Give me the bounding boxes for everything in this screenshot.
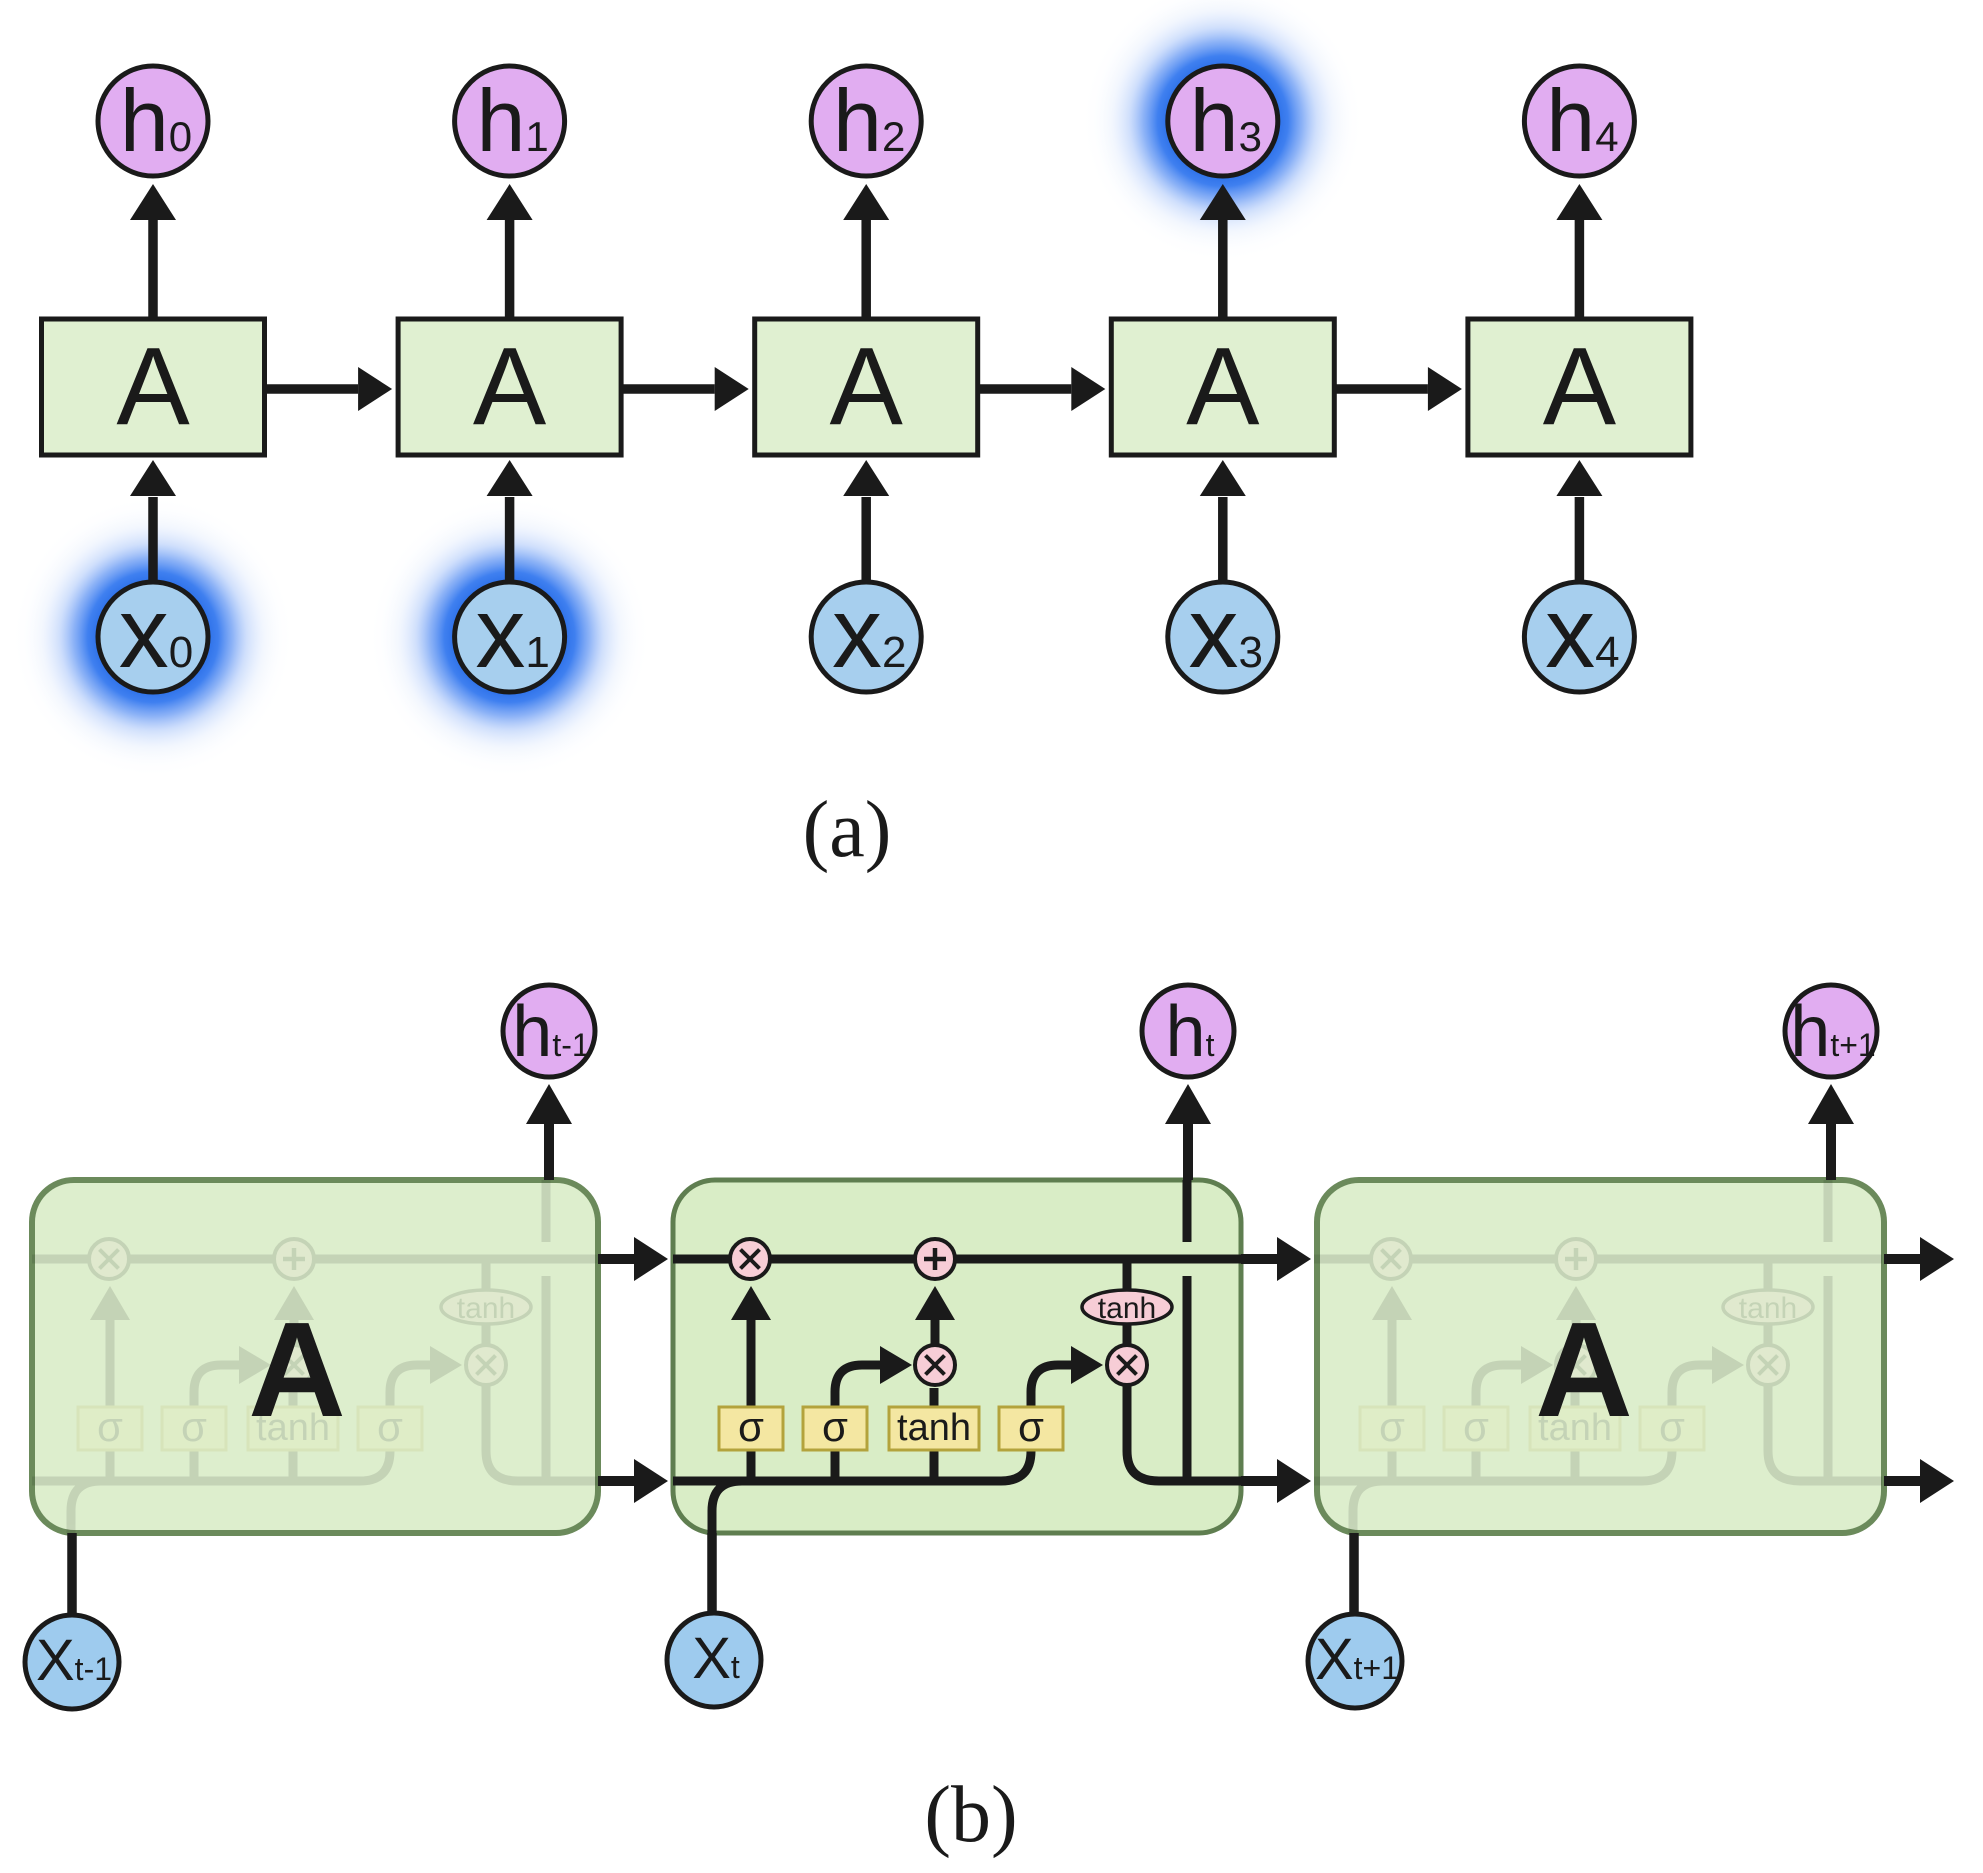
wire A2 to h2 <box>861 220 871 319</box>
op: plus <box>915 1239 955 1279</box>
svg-text:tanh: tanh <box>1098 1292 1156 1325</box>
node h0 : purple circle <box>98 66 208 176</box>
RNN cell A0 : green box <box>42 319 265 455</box>
wire hidden-state arrow t-1 to t <box>598 1476 634 1486</box>
svg-text:σ: σ <box>377 1403 403 1450</box>
wire: output to right edge <box>1768 1385 1882 1481</box>
wire: x input curve <box>1353 1481 1383 1533</box>
node h2 : purple circle <box>811 66 921 176</box>
op: mult-f <box>730 1239 770 1279</box>
node xt+1 : blue circle <box>1308 1614 1402 1708</box>
node x4 : blue circle <box>1524 582 1634 692</box>
wire: input gate riser <box>831 1450 840 1481</box>
glow behind x0 <box>11 495 295 779</box>
gate sigma1 <box>78 1407 142 1450</box>
gate sigma4 <box>1640 1407 1704 1450</box>
wire: mult-i to plus <box>290 1295 299 1346</box>
op: tanh ellipse <box>1082 1290 1172 1324</box>
faint internals cell t-1 <box>32 1180 600 1533</box>
svg-text:σ: σ <box>97 1403 123 1450</box>
wire x4 to A4 <box>1575 497 1585 584</box>
wire: hidden state line <box>1314 1450 1672 1481</box>
wire: hidden state line <box>32 1450 390 1481</box>
wire A3 to A4 <box>1334 384 1428 394</box>
glow behind h3 <box>1081 0 1365 263</box>
svg-text:tanh: tanh <box>457 1292 515 1325</box>
node x1 : blue circle <box>455 582 565 692</box>
wire cell-state arrow t+1 out <box>1884 1254 1920 1264</box>
RNN cell A4 : green box <box>1468 319 1691 455</box>
wire: hidden state line <box>673 1450 1031 1481</box>
op: mult-o <box>1107 1345 1147 1385</box>
wire: cell state line <box>1314 1255 1882 1264</box>
op: mult-i <box>274 1345 314 1385</box>
svg-text:σ: σ <box>181 1403 207 1450</box>
wire: output gate to mult-o <box>1672 1365 1713 1407</box>
wire x0 to A0 <box>148 497 158 584</box>
wire: input gate riser <box>190 1450 199 1481</box>
wire: cell to tanh ellipse <box>1123 1259 1132 1292</box>
wire A3 to h3 <box>1218 220 1228 319</box>
svg-text:σ: σ <box>738 1403 764 1450</box>
wire: tanh ellipse to mult-o <box>1764 1323 1773 1347</box>
node ht+1 : purple circle <box>1785 985 1877 1077</box>
node h1 : purple circle <box>455 66 565 176</box>
wire: mult-i to plus <box>931 1295 940 1346</box>
gate sigma4 <box>358 1407 422 1450</box>
wire: h output vertical <box>1824 1276 1833 1481</box>
svg-text:A: A <box>1543 325 1617 448</box>
wire: x input curve <box>71 1481 101 1533</box>
op: mult-f <box>1371 1239 1411 1279</box>
wire: output gate to mult-o <box>1031 1365 1072 1407</box>
node x3 : blue circle <box>1168 582 1278 692</box>
wire x1 to A1 <box>505 497 515 584</box>
LSTM cell box t <box>673 1180 1241 1533</box>
node x2 : blue circle <box>811 582 921 692</box>
wire: candidate tanh riser <box>1571 1450 1580 1481</box>
op: mult-i <box>1556 1345 1596 1385</box>
wire x3 to A3 <box>1218 497 1228 584</box>
gate sigma2 <box>803 1407 867 1450</box>
wire: candidate tanh riser <box>289 1450 298 1481</box>
gate sigma4 <box>999 1407 1063 1450</box>
wire: tanh ellipse to mult-o <box>482 1323 491 1347</box>
gate tanh <box>1530 1407 1620 1450</box>
svg-text:σ: σ <box>1018 1403 1044 1450</box>
wire: forget gate riser <box>747 1450 756 1481</box>
gate tanh <box>889 1407 979 1450</box>
wire from xt-1 <box>67 1533 77 1617</box>
wire: tanh ellipse to mult-o <box>1123 1323 1132 1347</box>
wire: cell state line <box>32 1255 600 1264</box>
wire cell-state arrow t-1 to t <box>598 1254 634 1264</box>
svg-text:A: A <box>248 1294 346 1445</box>
internals cell t <box>673 1180 1241 1533</box>
wire: input gate riser <box>1472 1450 1481 1481</box>
wire: x input curve <box>712 1481 742 1533</box>
wire hidden-state arrow t+1 out <box>1884 1476 1920 1486</box>
RNN cell A1 : green box <box>398 319 621 455</box>
gate sigma1 <box>1360 1407 1424 1450</box>
op: mult-f <box>89 1239 129 1279</box>
wire x2 to A2 <box>861 497 871 584</box>
svg-text:A: A <box>473 325 547 448</box>
svg-text:tanh: tanh <box>1739 1292 1797 1325</box>
wire: forget gate riser <box>1388 1450 1397 1481</box>
wire A1 to h1 <box>505 220 515 319</box>
faint internals cell t+1 <box>1314 1180 1882 1533</box>
op: mult-o <box>466 1345 506 1385</box>
RNN cell A2 : green box <box>755 319 978 455</box>
wire: candidate tanh riser <box>930 1450 939 1481</box>
op: plus <box>1556 1239 1596 1279</box>
wire to ht-1 <box>544 1124 554 1180</box>
wire: cell state line <box>673 1255 1241 1264</box>
op: mult-i <box>915 1345 955 1385</box>
RNN cell A3 : green box <box>1111 319 1334 455</box>
wire A0 to h0 <box>148 220 158 319</box>
wire from xt <box>707 1533 717 1615</box>
svg-text:(a): (a) <box>803 786 892 874</box>
op: plus <box>274 1239 314 1279</box>
svg-text:σ: σ <box>1659 1403 1685 1450</box>
wire: output to right edge <box>486 1385 600 1481</box>
wire to ht <box>1183 1124 1193 1180</box>
node xt : blue circle <box>667 1613 761 1707</box>
wire: mult-i to plus <box>1572 1295 1581 1346</box>
node x0 : blue circle <box>98 582 208 692</box>
svg-text:A: A <box>1535 1294 1633 1445</box>
svg-text:tanh: tanh <box>897 1407 971 1449</box>
wire: h output vertical <box>542 1276 551 1481</box>
node xt-1 : blue circle <box>25 1615 119 1709</box>
gate tanh <box>248 1407 338 1450</box>
gate sigma2 <box>1444 1407 1508 1450</box>
node h4 : purple circle <box>1524 66 1634 176</box>
wire: output to right edge <box>1127 1385 1241 1481</box>
wire from xt+1 <box>1349 1533 1359 1616</box>
svg-text:A: A <box>830 325 904 448</box>
wire A4 to h4 <box>1575 220 1585 319</box>
node ht : purple circle <box>1142 985 1234 1077</box>
LSTM cell box t+1 <box>1317 1180 1884 1533</box>
gate sigma1 <box>719 1407 783 1450</box>
wire hidden-state arrow t to t+1 <box>1241 1476 1277 1486</box>
wire A2 to A3 <box>978 384 1072 394</box>
svg-text:A: A <box>1186 325 1260 448</box>
wire cell-state arrow t to t+1 <box>1241 1254 1277 1264</box>
svg-text:(b): (b) <box>924 1771 1017 1859</box>
svg-text:σ: σ <box>822 1403 848 1450</box>
glow behind x1 <box>368 495 652 779</box>
wire: cell to tanh ellipse <box>482 1259 491 1292</box>
op: tanh ellipse <box>1723 1290 1813 1324</box>
wire A1 to A2 <box>621 384 715 394</box>
svg-text:A: A <box>116 325 190 448</box>
LSTM cell box t-1 <box>32 1180 598 1533</box>
wire: cell to tanh ellipse <box>1764 1259 1773 1292</box>
wire: h output vertical <box>1183 1276 1192 1481</box>
gate sigma2 <box>162 1407 226 1450</box>
node h3 : purple circle <box>1168 66 1278 176</box>
svg-text:σ: σ <box>1379 1403 1405 1450</box>
op: mult-o <box>1748 1345 1788 1385</box>
wire A0 to A1 <box>265 384 359 394</box>
node ht-1 : purple circle <box>503 985 595 1077</box>
op: tanh ellipse <box>441 1290 531 1324</box>
wire: forget gate riser <box>106 1450 115 1481</box>
wire to ht+1 <box>1826 1124 1836 1180</box>
wire: output gate to mult-o <box>390 1365 431 1407</box>
svg-text:σ: σ <box>1463 1403 1489 1450</box>
